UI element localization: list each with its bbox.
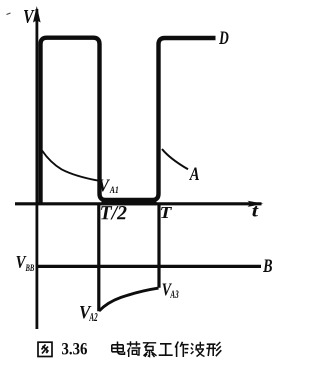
T/2 vertical line: [97, 204, 100, 311]
wire low-flat/axis fill: [102, 198, 157, 205]
T vertical line: [157, 203, 160, 288]
axis label t: [252, 206, 258, 217]
node label VA3: [163, 284, 173, 296]
B line (VBB level): [36, 265, 262, 268]
label D: [219, 32, 229, 45]
caption glyph 泵: [143, 343, 157, 357]
label T: [161, 207, 172, 218]
waveform D pulse train: [41, 38, 216, 204]
caption glyph 电: [112, 342, 125, 355]
caption glyph 工: [159, 344, 173, 355]
decay curve 2 (node A, after T): [162, 149, 188, 169]
V axis: [36, 9, 39, 329]
caption glyph 图: [38, 342, 52, 356]
t axis arrowhead: [248, 201, 264, 207]
ink speck top-left: [7, 13, 11, 15]
node label VA1: [99, 180, 110, 192]
caption glyph 作: [175, 342, 188, 358]
label B: [263, 260, 272, 273]
axis label V: [24, 10, 35, 23]
node label VA2: [80, 306, 92, 319]
V axis arrowhead: [33, 6, 41, 23]
caption glyph 形: [206, 342, 221, 356]
decay curve 1 (node A, first half): [42, 151, 98, 181]
label A: [189, 168, 199, 181]
caption glyph 荷: [127, 341, 141, 357]
rise curve node B (VA2 to VA3): [99, 288, 159, 311]
t axis: [15, 202, 262, 205]
label VBB: [17, 256, 27, 268]
caption: figure number 3.36: [62, 343, 87, 355]
label T/2: [101, 206, 127, 220]
caption glyph 波: [191, 342, 205, 357]
